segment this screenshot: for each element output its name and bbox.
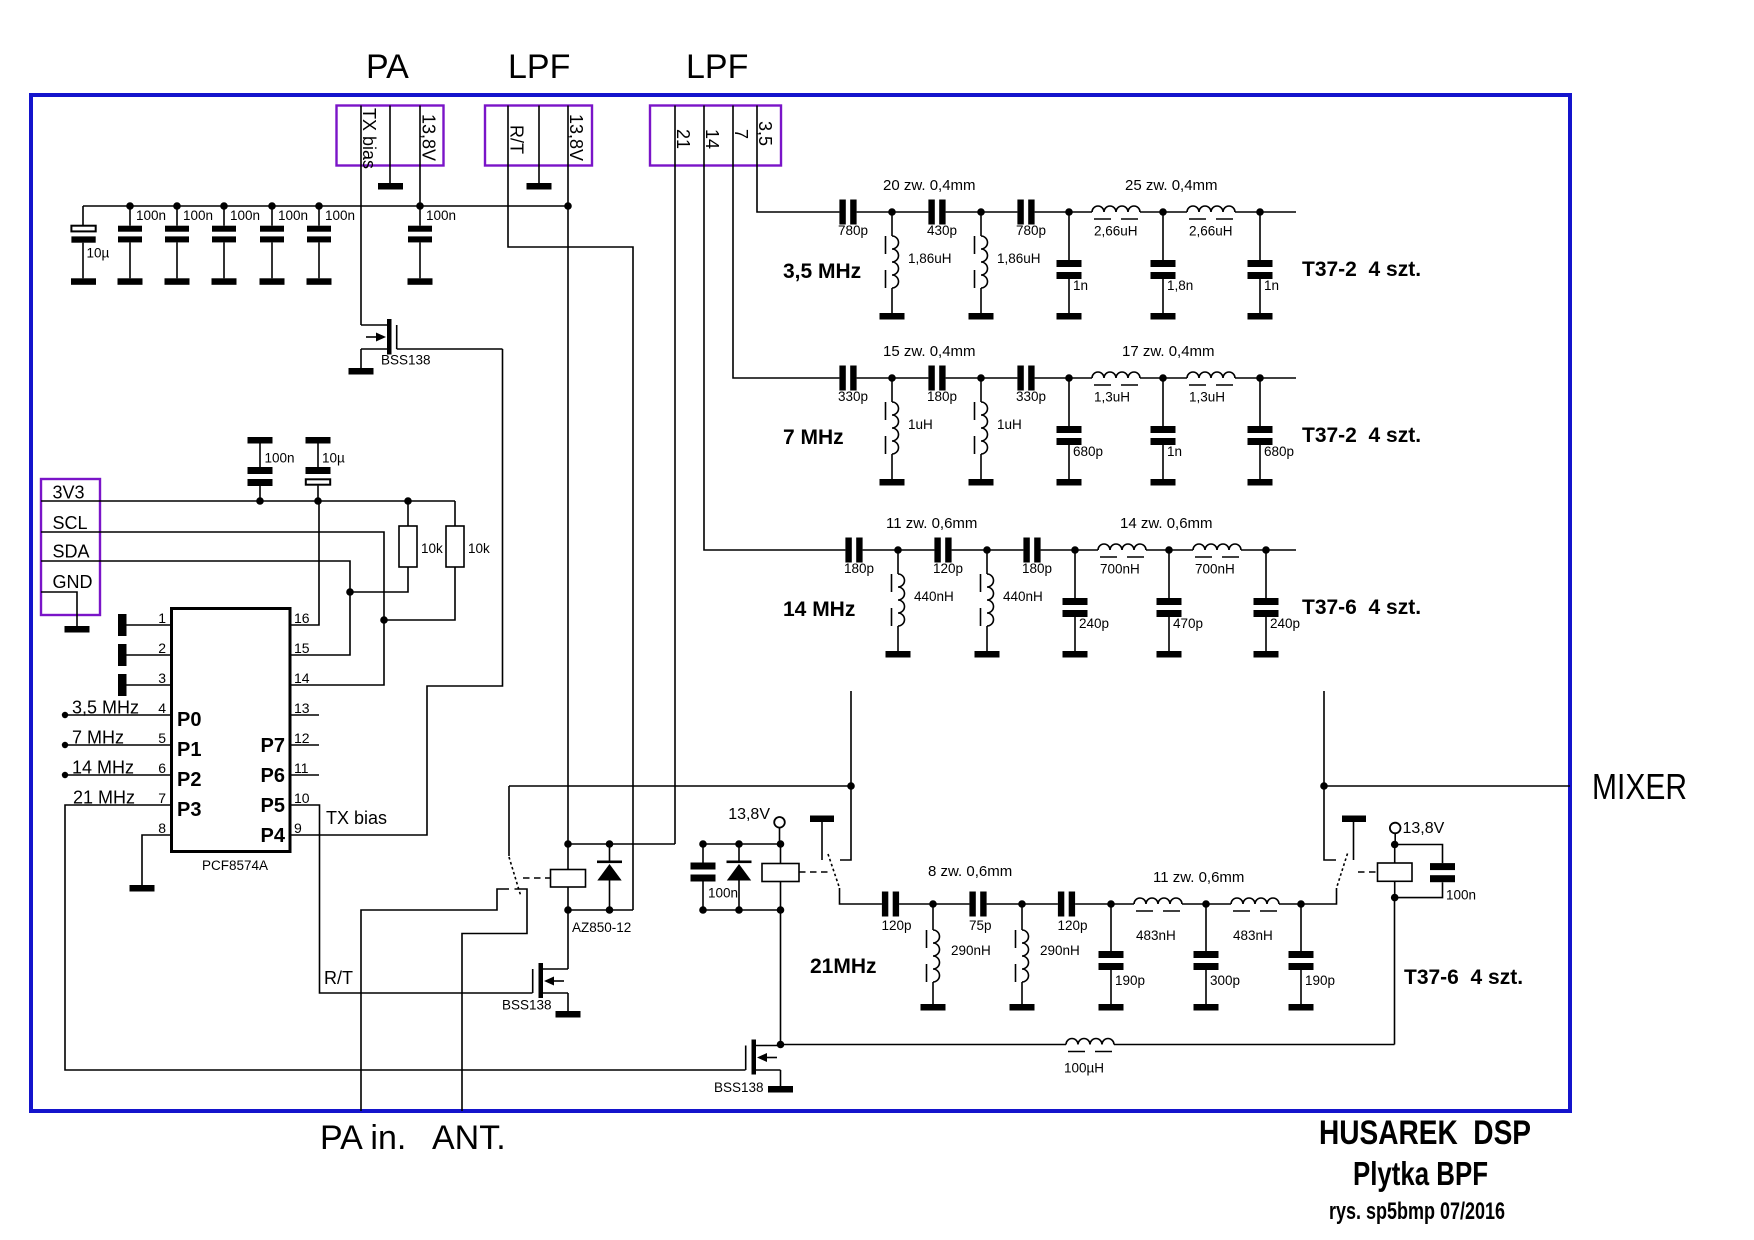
value label 190p — [1115, 973, 1145, 988]
junction bus to J2 13,8V pin — [564, 202, 572, 210]
capacitor 100n decoupling #1 — [118, 206, 142, 278]
capacitor 190p shunt (21MHz) — [1099, 904, 1124, 1004]
relay K2 coil — [762, 864, 799, 882]
winding note 11 zw. 0,6mm — [886, 515, 977, 532]
capacitor 330p series input (7 MHz) — [839, 366, 856, 391]
value label 100n #6 — [426, 208, 456, 223]
value label 1,86uH — [997, 251, 1041, 266]
ground under shunt inductor (3,5 MHz) — [969, 313, 994, 320]
svg-text:100µH: 100µH — [1064, 1061, 1104, 1076]
pin TX bias of J1 with wire down to Q1 — [360, 106, 362, 326]
transistor Q3 BSS138 — [746, 1040, 781, 1087]
value label 120p — [882, 918, 912, 933]
capacitor 180p series middle (7 MHz) — [928, 366, 945, 391]
pin label R/T (rotated) — [507, 125, 527, 154]
pin number 16 — [294, 610, 310, 626]
svg-text:240p: 240p — [1270, 616, 1300, 631]
junction node at shunt cap 1n (7 MHz) — [1159, 374, 1167, 382]
ground under shunt inductor (7 MHz) — [969, 479, 994, 486]
wire K3 supply to 100n — [1395, 845, 1443, 864]
svg-text:120p: 120p — [882, 918, 912, 933]
label ANT. below frame — [432, 1119, 506, 1157]
svg-text:1: 1 — [158, 610, 166, 626]
ground under shunt cap 1n (7 MHz) — [1151, 479, 1176, 486]
value label 100n at K3 — [1446, 888, 1476, 903]
svg-text:R/T: R/T — [507, 125, 527, 154]
junction node at shunt cap 1n (3,5 MHz) — [1256, 208, 1264, 216]
value label 1,3uH #1 — [1094, 390, 1130, 405]
pin 4 of U1 wire to node 3,5 MHz — [65, 714, 172, 716]
capacitor 680p shunt (7 MHz) — [1057, 378, 1082, 479]
svg-text:290nH: 290nH — [951, 943, 991, 958]
svg-text:100n: 100n — [325, 208, 355, 223]
pin 1 of U1 with termination bar — [118, 614, 172, 636]
ground under shunt inductor (7 MHz) — [880, 479, 905, 486]
wire K3 coil bottom down to choke line — [1394, 898, 1396, 1045]
wire K2 throw to 21MHz filter input — [840, 888, 882, 904]
net stub dot 3,5 MHz — [62, 712, 68, 718]
wire K2 bottom rail — [703, 909, 781, 911]
port label P3 inside U1 — [177, 799, 201, 821]
svg-text:1,8n: 1,8n — [1167, 278, 1193, 293]
svg-text:3,5 MHz: 3,5 MHz — [783, 260, 861, 283]
svg-text:190p: 190p — [1115, 973, 1145, 988]
value label 190p — [1305, 973, 1335, 988]
svg-text:100n: 100n — [183, 208, 213, 223]
ground under shunt inductor (3,5 MHz) — [880, 313, 905, 320]
junction node shunt inductor 2 (21MHz) — [1018, 900, 1026, 908]
IC U1 PCF8574A body — [172, 609, 291, 852]
net label TX bias — [326, 808, 387, 828]
svg-text:100n: 100n — [136, 208, 166, 223]
value label 780p — [1016, 223, 1046, 238]
pin number 6 — [158, 760, 166, 776]
svg-text:P6: P6 — [261, 765, 285, 787]
value label 700nH #2 — [1195, 562, 1235, 577]
net label R/T — [324, 968, 353, 988]
ground under 290nH — [1010, 1004, 1035, 1011]
svg-text:T37-2 4 szt.: T37-2 4 szt. — [1302, 424, 1421, 447]
svg-text:13,8V: 13,8V — [566, 114, 586, 161]
port label P1 inside U1 — [177, 739, 201, 761]
value label 470p — [1173, 616, 1203, 631]
pin 16 of U1 wire up to 3V3 — [290, 501, 319, 625]
value label 100n #4 — [278, 208, 308, 223]
value label 680p — [1264, 444, 1294, 459]
value label 120p #2 — [1058, 918, 1088, 933]
ground symbol at J4 GND — [65, 626, 90, 633]
junction node shunt cap 300p (21MHz) — [1202, 900, 1210, 908]
value label 100n #3 — [230, 208, 260, 223]
capacitor 10u electrolytic (bank) — [71, 206, 95, 278]
pin 3,5 of J3 wire down to 3,5 MHz filter input — [757, 106, 839, 213]
svg-text:21MHz: 21MHz — [810, 955, 877, 978]
pin number 8 — [158, 820, 166, 836]
port label P7 inside U1 — [261, 735, 285, 757]
svg-text:100n: 100n — [265, 451, 295, 466]
wire K1 common from MIXER line — [508, 786, 510, 856]
label BSS138 for Q2 — [502, 998, 552, 1013]
relay K1 lever (movable contact) — [509, 857, 521, 895]
connector J2 LPF header (purple box) — [485, 106, 592, 166]
ground under shunt cap 1n (3,5 MHz) — [1248, 313, 1273, 320]
svg-text:483nH: 483nH — [1136, 928, 1176, 943]
wire 3V3 down to R2 10k — [454, 501, 456, 526]
junction node shunt cap 190p (21MHz) — [1297, 900, 1305, 908]
core note T37-6 for 21MHz — [1404, 966, 1523, 989]
junction D1 cathode rail — [606, 840, 614, 848]
svg-text:180p: 180p — [927, 389, 957, 404]
ground under shunt inductor (14 MHz) — [975, 651, 1000, 658]
svg-text:1uH: 1uH — [908, 417, 933, 432]
inductor 290nH shunt (21MHz) — [927, 904, 940, 1004]
junction 13,8V at K1 rail — [564, 840, 572, 848]
pin 11 of U1 stub — [290, 774, 319, 776]
relay K1 contact to ANT — [462, 889, 527, 1111]
value label 430p — [927, 223, 957, 238]
svg-text:11: 11 — [294, 760, 309, 776]
value label 180p — [844, 561, 874, 576]
svg-text:HUSAREK DSP: HUSAREK DSP — [1319, 1114, 1531, 1152]
inductor 700nH series 1 (14 MHz) — [1098, 544, 1146, 557]
capacitor 780p series input (3,5 MHz) — [839, 200, 856, 225]
capacitor 100n decoupling #6 (under J1 13,8V pin) — [408, 206, 432, 278]
value label 780p — [838, 223, 868, 238]
svg-text:14: 14 — [294, 670, 310, 686]
pin number 11 — [294, 760, 309, 776]
core note T37-2 4 szt. — [1302, 424, 1421, 447]
capacitor 1n shunt (7 MHz) — [1151, 378, 1176, 479]
relay K1 coil — [551, 870, 586, 888]
value label 1,86uH — [908, 251, 952, 266]
value label 290nH — [1040, 943, 1080, 958]
core note T37-6 4 szt. — [1302, 596, 1421, 619]
label PCF8574A under U1 — [202, 858, 268, 873]
ground under shunt inductor (14 MHz) — [886, 651, 911, 658]
value label 483nH #2 — [1233, 928, 1273, 943]
ground under 100n #6 — [408, 278, 433, 285]
label BSS138 for Q3 — [714, 1080, 764, 1095]
svg-text:6: 6 — [158, 760, 166, 776]
svg-text:10k: 10k — [468, 541, 490, 556]
svg-text:3V3: 3V3 — [53, 483, 85, 503]
capacitor 100n at U1 VDD — [248, 437, 273, 501]
value label 240p — [1079, 616, 1109, 631]
port label P5 inside U1 — [261, 795, 285, 817]
inductor 1,86uH shunt (3,5 MHz) — [975, 212, 988, 313]
svg-text:14 zw. 0,6mm: 14 zw. 0,6mm — [1120, 515, 1213, 532]
inductor 1uH shunt (7 MHz) — [975, 378, 988, 479]
label MIXER — [1592, 766, 1687, 807]
svg-text:SCL: SCL — [53, 513, 88, 533]
junction on 13,8V bus at 100n #1 — [126, 202, 134, 210]
value label 240p — [1270, 616, 1300, 631]
wire K3 coil top lead — [1394, 845, 1396, 864]
svg-text:1n: 1n — [1167, 444, 1182, 459]
ground under shunt cap 240p (14 MHz) — [1254, 651, 1279, 658]
pin 13,8V of J1 wire down to bus — [419, 106, 421, 207]
wire R1 bottom to SDA — [350, 567, 408, 592]
pin label 21 (rotated) — [673, 129, 693, 149]
svg-text:780p: 780p — [838, 223, 868, 238]
band label 21MHz — [810, 955, 877, 978]
pin number 7 — [158, 790, 166, 806]
junction R1 to SDA vertical — [346, 588, 354, 596]
transistor Q2 BSS138 — [533, 963, 568, 1011]
value label 120p — [933, 561, 963, 576]
capacitor 330p series (7 MHz) — [1017, 366, 1034, 391]
capacitor 180p series (14 MHz) — [1023, 538, 1040, 563]
ground under shunt cap 470p (14 MHz) — [1157, 651, 1182, 658]
capacitor 1,8n shunt (3,5 MHz) — [1151, 212, 1176, 313]
junction on 13,8V bus at 100n #3 — [220, 202, 228, 210]
junction K2 coil bottom — [777, 906, 785, 914]
svg-text:10k: 10k — [421, 541, 443, 556]
value label 75p — [969, 918, 992, 933]
net label 14 MHz — [72, 758, 134, 778]
capacitor 780p series (3,5 MHz) — [1017, 200, 1034, 225]
value label 330p — [1016, 389, 1046, 404]
junction node at shunt cap 1n (3,5 MHz) — [1065, 208, 1073, 216]
wire GND of J4 to ground — [41, 592, 77, 626]
svg-text:TX bias: TX bias — [326, 808, 387, 828]
value label 440nH — [914, 589, 954, 604]
pin 13 of U1 stub — [290, 714, 319, 716]
wire 13,8V decoupling bus — [83, 205, 568, 207]
junction node at shunt inductor 2 (3,5 MHz) — [977, 208, 985, 216]
ground at U1 pin 8 — [130, 885, 155, 892]
svg-text:20 zw. 0,4mm: 20 zw. 0,4mm — [883, 177, 976, 194]
svg-text:ANT.: ANT. — [432, 1119, 506, 1157]
label 13,8V at K2 — [728, 806, 770, 823]
inductor 700nH series 2 (14 MHz) — [1193, 544, 1241, 557]
svg-text:SDA: SDA — [53, 542, 90, 562]
capacitor 100n across K2 coil — [691, 844, 716, 910]
inductor 2,66uH series 1 (3,5 MHz) — [1092, 206, 1140, 219]
svg-text:15 zw. 0,4mm: 15 zw. 0,4mm — [883, 343, 976, 360]
ground under 10u — [71, 278, 96, 285]
svg-text:T37-2 4 szt.: T37-2 4 szt. — [1302, 258, 1421, 281]
svg-text:BSS138: BSS138 — [502, 998, 552, 1013]
relay K2 lever — [828, 854, 840, 888]
value label 100n #1 — [136, 208, 166, 223]
pin label 14 (rotated) — [702, 129, 722, 149]
capacitor 1n shunt (3,5 MHz) — [1057, 212, 1082, 313]
pin 2 of U1 with termination bar — [118, 644, 172, 666]
inductor 440nH shunt (14 MHz) — [981, 550, 994, 651]
relay K2 unused throw terminal — [810, 816, 834, 861]
junction node at shunt inductor 1 (14 MHz) — [894, 546, 902, 554]
value label 1,8n — [1167, 278, 1193, 293]
label PA above J1 — [366, 48, 409, 86]
value label 1,3uH #2 — [1189, 390, 1225, 405]
pin 6 of U1 wire to node 14 MHz — [65, 774, 172, 776]
junction 3V3 at R1 — [404, 497, 412, 505]
pin 10 of U1 (P5 R/T) wire down to Q2 gate — [290, 805, 533, 993]
svg-text:21: 21 — [673, 129, 693, 149]
pin number 13 — [294, 700, 310, 716]
port label P4 inside U1 — [261, 825, 286, 847]
pin label 3V3 — [53, 483, 85, 503]
junction on 13,8V bus at 100n #2 — [173, 202, 181, 210]
inductor 290nH shunt (21MHz) — [1016, 904, 1029, 1004]
pin 14 of J3 wire down to 14 MHz filter input — [704, 106, 845, 551]
value label 100n at U1 VDD — [265, 451, 295, 466]
junction D1 anode rail — [606, 906, 614, 914]
svg-text:100n: 100n — [1446, 888, 1476, 903]
svg-text:17 zw. 0,4mm: 17 zw. 0,4mm — [1122, 343, 1215, 360]
svg-text:3: 3 — [158, 670, 166, 686]
wire net SCL from J4 — [41, 532, 384, 685]
wire K1 coil top lead — [567, 844, 569, 870]
svg-text:330p: 330p — [838, 389, 868, 404]
ground under 100n #4 — [260, 278, 285, 285]
wire Q3 drain to 100uH choke line — [781, 1044, 1395, 1046]
capacitor 10u at U1 VDD (electrolytic) — [306, 437, 331, 501]
wire K2 coil leads — [780, 844, 782, 910]
svg-text:330p: 330p — [1016, 389, 1046, 404]
pin number 1 — [158, 610, 166, 626]
pin 7 of U1 wire (21 MHz select) down to Q3 gate — [65, 805, 746, 1070]
net stub dot 7 MHz — [62, 742, 68, 748]
inductor 100uH choke — [1066, 1039, 1114, 1052]
wire K1 coil bottom lead — [567, 887, 569, 910]
svg-text:Plytka BPF: Plytka BPF — [1353, 1155, 1488, 1192]
ground at Q3 source — [768, 1086, 793, 1093]
svg-text:680p: 680p — [1073, 444, 1103, 459]
ground under shunt cap 1n (3,5 MHz) — [1057, 313, 1082, 320]
svg-text:P7: P7 — [261, 735, 285, 757]
label AZ850-12 for K1 — [572, 920, 631, 935]
wire 3V3 down to R1 10k — [407, 501, 409, 526]
svg-text:rys. sp5bmp 07/2016: rys. sp5bmp 07/2016 — [1329, 1198, 1505, 1225]
ground under shunt cap 240p (14 MHz) — [1063, 651, 1088, 658]
wire Q1 gate to P4 net — [397, 348, 503, 350]
pin 7 of J3 wire down to 7 MHz filter input — [733, 106, 839, 379]
value label 100uH — [1064, 1061, 1104, 1076]
junction node at shunt inductor 2 (14 MHz) — [983, 546, 991, 554]
svg-text:8 zw. 0,6mm: 8 zw. 0,6mm — [928, 863, 1012, 880]
svg-text:P4: P4 — [261, 825, 286, 847]
net label 21 MHz — [73, 788, 135, 808]
svg-text:MIXER: MIXER — [1592, 766, 1687, 807]
ground under shunt cap 680p (7 MHz) — [1248, 479, 1273, 486]
port label P0 inside U1 — [177, 709, 201, 731]
svg-text:290nH: 290nH — [1040, 943, 1080, 958]
pin number 5 — [158, 730, 166, 746]
svg-text:1,86uH: 1,86uH — [908, 251, 952, 266]
svg-text:AZ850-12: AZ850-12 — [572, 920, 631, 935]
junction K2 rail at 13,8V — [777, 840, 785, 848]
junction K1 coil bottom — [564, 906, 572, 914]
relay K2 actuator dashed link — [799, 871, 829, 873]
ground under shunt cap 680p (7 MHz) — [1057, 479, 1082, 486]
capacitor 120p series middle (14 MHz) — [934, 538, 951, 563]
pin label 3,5 (rotated) — [755, 121, 775, 146]
junction node at shunt cap 680p (7 MHz) — [1065, 374, 1073, 382]
pin label SCL — [53, 513, 88, 533]
terminal 13,8V for K3 — [1390, 823, 1401, 845]
value label 180p — [927, 389, 957, 404]
value label 680p — [1073, 444, 1103, 459]
inductor 440nH shunt (14 MHz) — [892, 550, 905, 651]
inductor 2,66uH series 2 (3,5 MHz) — [1187, 206, 1235, 219]
svg-text:PA: PA — [366, 48, 409, 86]
svg-text:700nH: 700nH — [1100, 562, 1140, 577]
relay K3 coil — [1378, 863, 1413, 881]
pin 3 of U1 with termination bar — [118, 674, 172, 696]
svg-text:TX bias: TX bias — [359, 108, 379, 169]
diode D1 flyback for K1 — [597, 844, 622, 910]
inductor 483nH series 2 (21MHz) — [1231, 898, 1279, 911]
wire net 3V3 from J4 to pullups — [41, 500, 455, 502]
pin 13,8V of J2 long wire down to relay K1 rail — [567, 106, 569, 845]
junction on 13,8V bus at 100n #4 — [268, 202, 276, 210]
svg-text:75p: 75p — [969, 918, 992, 933]
label BSS138 for Q1 — [381, 353, 431, 368]
capacitor 100n decoupling #4 — [260, 206, 284, 278]
relay K3 lever — [1337, 854, 1348, 889]
title HUSAREK DSP — [1319, 1114, 1531, 1152]
svg-text:12: 12 — [294, 730, 310, 746]
svg-text:P3: P3 — [177, 799, 201, 821]
pin number 10 — [294, 790, 310, 806]
svg-text:180p: 180p — [844, 561, 874, 576]
junction 3V3 at 100n — [256, 497, 264, 505]
svg-text:P0: P0 — [177, 709, 201, 731]
pin number 12 — [294, 730, 310, 746]
junction node at shunt cap 240p (14 MHz) — [1071, 546, 1079, 554]
junction on bus at 100n #6 — [416, 202, 424, 210]
svg-text:2: 2 — [158, 640, 166, 656]
svg-text:440nH: 440nH — [914, 589, 954, 604]
svg-text:11 zw. 0,6mm: 11 zw. 0,6mm — [1153, 869, 1244, 886]
svg-text:BSS138: BSS138 — [381, 353, 431, 368]
pin label 13,8V (rotated) — [419, 114, 439, 161]
wire R2 bottom to SCL — [384, 567, 455, 620]
ground under 100n #1 — [118, 278, 143, 285]
relay K1 contact to PA in — [361, 889, 509, 1111]
value label 483nH #1 — [1136, 928, 1176, 943]
svg-text:300p: 300p — [1210, 973, 1240, 988]
junction node at shunt cap 1,8n (3,5 MHz) — [1159, 208, 1167, 216]
svg-text:440nH: 440nH — [1003, 589, 1043, 604]
svg-text:15: 15 — [294, 640, 310, 656]
ground symbol under J1 — [378, 183, 403, 190]
svg-text:8: 8 — [158, 820, 166, 836]
svg-text:10µ: 10µ — [87, 246, 110, 261]
value label 10u — [87, 246, 110, 261]
band label 14 MHz — [783, 598, 855, 621]
capacitor 430p series middle (3,5 MHz) — [928, 200, 945, 225]
svg-text:PA in.: PA in. — [320, 1119, 406, 1157]
junction 3V3 at 10u / U1 pin16 — [314, 497, 322, 505]
diode D2 flyback for K2 — [727, 844, 752, 910]
svg-text:13: 13 — [294, 700, 310, 716]
svg-text:BSS138: BSS138 — [714, 1080, 764, 1095]
value label 180p — [1022, 561, 1052, 576]
value label 100n #2 — [183, 208, 213, 223]
junction on 13,8V bus at 100n #5 — [315, 202, 323, 210]
pin 12 of U1 stub — [290, 744, 319, 746]
wire 14 MHz filter main line segments — [845, 549, 1296, 551]
capacitor 100n decoupling #5 — [307, 206, 331, 278]
ground under 300p (21MHz) — [1194, 1004, 1219, 1011]
junction node at shunt cap 240p (14 MHz) — [1262, 546, 1270, 554]
svg-text:10: 10 — [294, 790, 310, 806]
ground symbol under J2 — [527, 183, 552, 190]
svg-text:4: 4 — [158, 700, 166, 716]
